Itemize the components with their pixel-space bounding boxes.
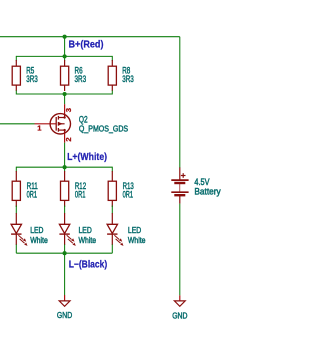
svg-text:3R3: 3R3 [26, 74, 38, 84]
wire resistor bottom bus [16, 91, 112, 95]
net label B+(Red) [69, 39, 104, 50]
svg-text:White: White [79, 235, 97, 245]
svg-text:B+(Red): B+(Red) [69, 39, 104, 50]
svg-text:0R1: 0R1 [75, 190, 86, 200]
wire resistor top bus [16, 56, 112, 61]
wire battery to GND right [179, 204, 181, 296]
LED White #3 [107, 213, 146, 246]
svg-text:3R3: 3R3 [122, 74, 134, 84]
svg-text:Battery: Battery [194, 186, 221, 196]
LED White #2 [59, 213, 96, 246]
wire LED2 to L- bus [64, 245, 66, 254]
svg-text:GND: GND [172, 310, 187, 320]
resistor R12 [61, 171, 87, 207]
svg-text:L−(Black): L−(Black) [69, 260, 108, 271]
power symbol GND right [172, 295, 187, 320]
wire L- bus [16, 252, 112, 254]
svg-text:0R1: 0R1 [27, 190, 37, 200]
transistor Q2 [35, 104, 129, 143]
pin number 3 (top) [64, 108, 73, 112]
svg-text:GND: GND [57, 310, 72, 320]
svg-text:LED: LED [128, 225, 141, 235]
junction L- bus [63, 251, 67, 255]
svg-text:0R1: 0R1 [123, 190, 134, 200]
wire battery drop from B+ rail [179, 37, 181, 168]
junction resistor top bus [63, 54, 67, 58]
svg-text:2: 2 [64, 137, 73, 141]
net label L+(White) [67, 152, 107, 163]
svg-text:3R3: 3R3 [75, 74, 87, 84]
svg-text:White: White [128, 235, 146, 245]
svg-text:White: White [30, 235, 48, 245]
svg-text:LED: LED [79, 225, 92, 235]
battery BT1 [171, 168, 221, 204]
resistor R13 [108, 171, 134, 207]
resistor R11 [12, 171, 38, 207]
svg-text:L+(White): L+(White) [67, 152, 107, 163]
junction L+ bus [63, 165, 67, 169]
wire junction down to Q2 source [64, 94, 66, 104]
wire R13 to LED3 [111, 206, 113, 214]
svg-text:Q_PMOS_GDS: Q_PMOS_GDS [79, 124, 128, 134]
wire LED3 to L- bus [111, 245, 113, 254]
pin number 2 (bottom) [64, 137, 73, 141]
resistor R6 [61, 60, 87, 91]
resistor R5 [12, 60, 38, 91]
pin number 1 (gate) [37, 124, 42, 133]
wire B+ rail top [0, 36, 180, 38]
junction B+ at rail [63, 35, 67, 39]
net label L-(Black) [69, 260, 108, 271]
junction resistor bottom bus [63, 92, 67, 96]
resistor R8 [108, 60, 134, 91]
wire B+ junction drop to resistor bus [64, 37, 66, 57]
wire Q2 drain down to L+ bus [64, 143, 66, 168]
power symbol GND left [57, 295, 72, 320]
wire L+ bus [16, 167, 112, 172]
svg-text:LED: LED [30, 225, 43, 235]
wire R12 to LED2 [64, 206, 66, 214]
LED White #1 [11, 213, 48, 246]
wire L- bus down to GND [64, 253, 66, 295]
wire R11 to LED1 [15, 206, 17, 214]
svg-text:3: 3 [64, 108, 73, 112]
wire LED1 to L- bus [15, 245, 17, 254]
wire gate from left edge [0, 123, 35, 125]
